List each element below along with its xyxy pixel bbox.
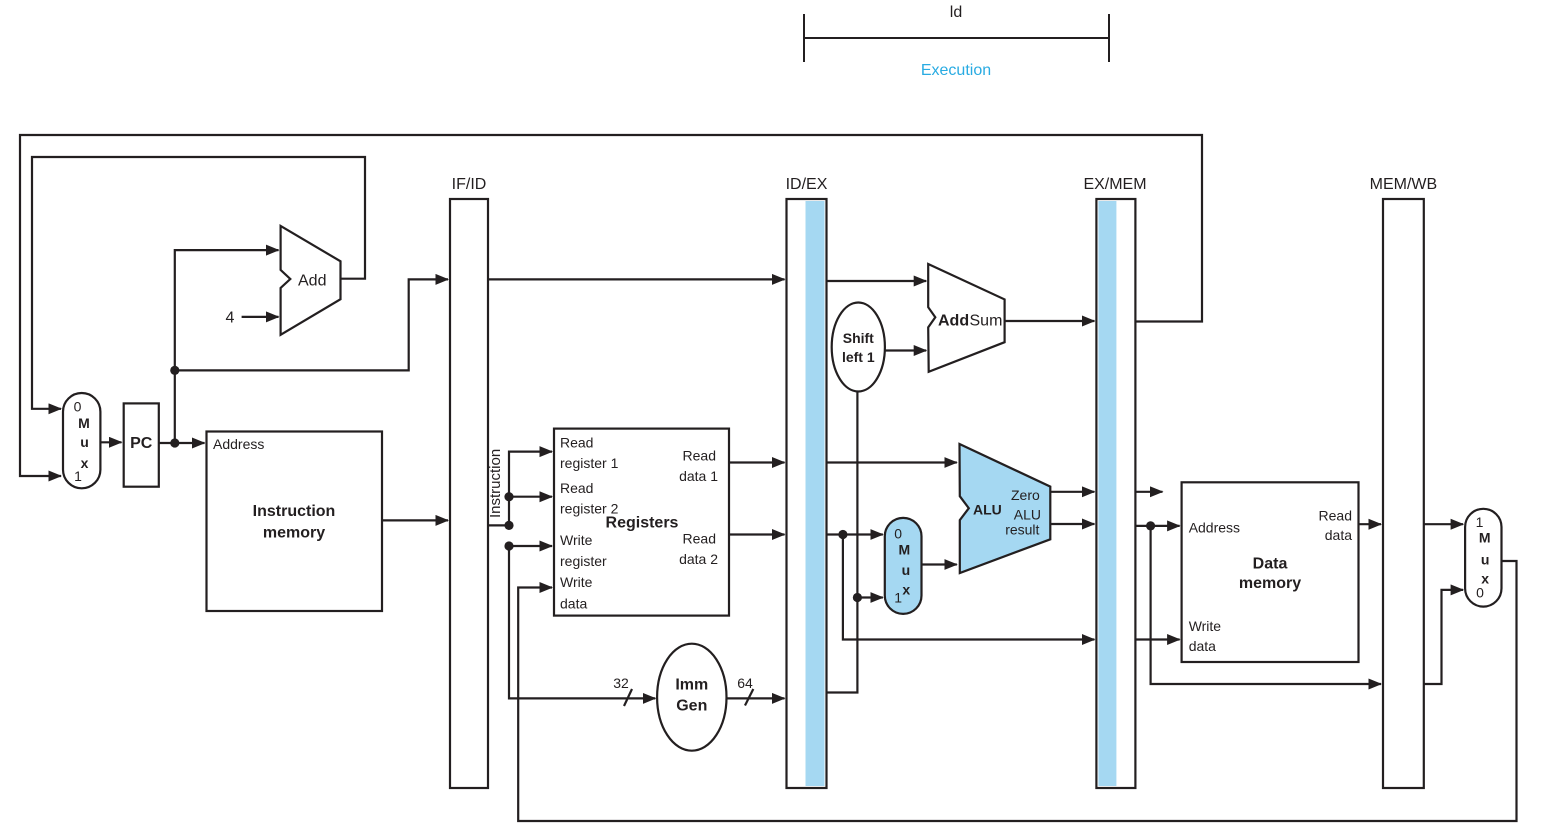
- wire shift left to AddSum: [885, 349, 926, 351]
- svg-text:Address: Address: [213, 436, 264, 452]
- wire read data 1 to ID/EX: [729, 461, 785, 463]
- wire AddSum to EX/MEM: [1005, 320, 1095, 322]
- svg-text:Sum: Sum: [970, 313, 1003, 330]
- wire ALU zero to EX/MEM: [1050, 491, 1094, 493]
- wire PC riser: [175, 250, 279, 443]
- svg-text:1: 1: [74, 468, 82, 484]
- stage bracket ld: [804, 4, 1109, 62]
- svg-text:Read: Read: [1319, 508, 1352, 524]
- wire IF/ID pc to ID/EX: [488, 278, 785, 280]
- wire branch feedback loop: [20, 135, 1202, 476]
- svg-text:Execution: Execution: [921, 62, 991, 79]
- node imm junction: [853, 593, 862, 602]
- wire ID/EX pc to AddSum: [827, 280, 927, 282]
- svg-text:0: 0: [1476, 585, 1484, 601]
- svg-text:x: x: [902, 581, 910, 597]
- node alu result junction: [1146, 521, 1155, 530]
- svg-text:Read: Read: [560, 480, 593, 496]
- node PC riser junction: [170, 366, 179, 375]
- register PC: [124, 403, 159, 486]
- svg-text:ld: ld: [950, 4, 962, 21]
- svg-text:Zero: Zero: [1011, 487, 1040, 503]
- svg-text:data: data: [560, 596, 587, 612]
- svg-text:Data: Data: [1253, 556, 1288, 573]
- svg-text:ID/EX: ID/EX: [786, 176, 828, 193]
- pipeline register IF/ID: [450, 176, 488, 788]
- svg-text:1: 1: [1476, 514, 1484, 530]
- pipeline register ID/EX: [786, 176, 828, 788]
- svg-text:Read: Read: [683, 531, 716, 547]
- node PC junction: [170, 438, 179, 447]
- mux M1 (PC source): [63, 393, 100, 488]
- wire writeback loop: [518, 561, 1516, 821]
- wire PC out to instruction memory address: [159, 442, 205, 444]
- svg-text:result: result: [1005, 522, 1039, 538]
- svg-text:Imm: Imm: [675, 677, 708, 694]
- node instr junction 1: [504, 492, 513, 501]
- wire 4 to Add: [242, 316, 279, 318]
- svg-text:M: M: [1479, 530, 1491, 546]
- svg-text:IF/ID: IF/ID: [452, 176, 487, 193]
- slash 32: [624, 689, 632, 706]
- svg-text:PC: PC: [130, 435, 153, 452]
- svg-text:Add: Add: [938, 313, 969, 330]
- wire ALU result to EX/MEM: [1050, 523, 1094, 525]
- wire imm to mux M2: [857, 596, 882, 598]
- wire write data to data memory: [1135, 638, 1179, 640]
- slash 64: [745, 689, 753, 706]
- instruction memory: [207, 432, 383, 612]
- wire MEM/WB read data to mux M3: [1424, 523, 1463, 525]
- svg-text:Address: Address: [1189, 520, 1240, 536]
- wire imm ID/EX out riser: [827, 392, 858, 693]
- svg-text:Add: Add: [298, 273, 326, 290]
- svg-text:ALU: ALU: [1014, 507, 1041, 523]
- svg-text:memory: memory: [263, 525, 325, 542]
- svg-text:EX/MEM: EX/MEM: [1083, 176, 1146, 193]
- svg-text:Shift: Shift: [843, 330, 874, 346]
- svg-text:64: 64: [737, 675, 753, 691]
- svg-text:Write: Write: [560, 574, 593, 590]
- svg-text:0: 0: [894, 526, 902, 542]
- svg-text:u: u: [1481, 552, 1490, 568]
- svg-text:data 1: data 1: [679, 468, 718, 484]
- svg-text:register: register: [560, 553, 607, 569]
- svg-text:u: u: [80, 434, 89, 450]
- svg-text:M: M: [898, 542, 910, 558]
- wire PC to IF/ID: [175, 279, 448, 370]
- svg-text:0: 0: [74, 399, 82, 415]
- svg-text:left 1: left 1: [842, 349, 875, 365]
- wire alu result bypass to MEM/WB: [1151, 526, 1381, 684]
- ellipse Shift left 1: [832, 303, 885, 392]
- wire mux M2 to ALU: [922, 563, 957, 565]
- svg-text:ALU: ALU: [973, 502, 1002, 518]
- svg-text:Read: Read: [560, 435, 593, 451]
- svg-text:data 2: data 2: [679, 551, 718, 567]
- wire data memory read data to MEM/WB: [1359, 523, 1382, 525]
- svg-text:register 1: register 1: [560, 455, 619, 471]
- svg-text:Gen: Gen: [676, 698, 707, 715]
- wire read data 1 ID/EX to ALU: [827, 461, 957, 463]
- wire read data 2 to ID/EX: [729, 533, 785, 535]
- svg-text:MEM/WB: MEM/WB: [1370, 176, 1438, 193]
- wire zero stub: [1135, 491, 1162, 493]
- node instr junction 2: [504, 521, 513, 530]
- wire instruction bus: [488, 452, 655, 699]
- node read data 2 junction: [838, 530, 847, 539]
- svg-text:Write: Write: [1189, 618, 1222, 634]
- svg-text:Instruction: Instruction: [487, 449, 504, 518]
- svg-text:Write: Write: [560, 532, 593, 548]
- wire read data 2 ID/EX to mux: [827, 533, 883, 535]
- svg-text:32: 32: [613, 675, 629, 691]
- adder Add: [281, 226, 341, 335]
- wire read data 2 down to EX/MEM: [843, 535, 1095, 640]
- adder AddSum: [928, 264, 1004, 372]
- mux M2 (ALU operand): [885, 518, 922, 614]
- wire instruction memory to IF/ID: [382, 519, 448, 521]
- node instr junction 3: [504, 541, 513, 550]
- svg-text:data: data: [1325, 527, 1352, 543]
- svg-text:data: data: [1189, 638, 1216, 654]
- imm gen: [657, 644, 726, 751]
- svg-text:M: M: [78, 415, 90, 431]
- pipeline register EX/MEM: [1083, 176, 1146, 788]
- wire MEM/WB alu result to mux M3: [1424, 590, 1463, 684]
- svg-text:4: 4: [226, 310, 235, 327]
- wire mux M1 to PC: [100, 441, 121, 443]
- pipeline register MEM/WB: [1370, 176, 1438, 788]
- data memory: [1182, 482, 1359, 662]
- alu ALU: [960, 444, 1051, 573]
- registers block: [554, 429, 729, 616]
- svg-text:Instruction: Instruction: [253, 503, 336, 520]
- mux M3 (writeback): [1465, 509, 1501, 607]
- svg-text:1: 1: [894, 590, 902, 606]
- svg-text:u: u: [902, 562, 911, 578]
- svg-text:Read: Read: [683, 448, 716, 464]
- svg-text:Registers: Registers: [606, 515, 679, 532]
- wire alu result to data memory: [1135, 525, 1179, 527]
- wire pc+4 loop: [32, 157, 365, 409]
- svg-text:memory: memory: [1239, 575, 1301, 592]
- wire imm gen to ID/EX: [727, 697, 785, 699]
